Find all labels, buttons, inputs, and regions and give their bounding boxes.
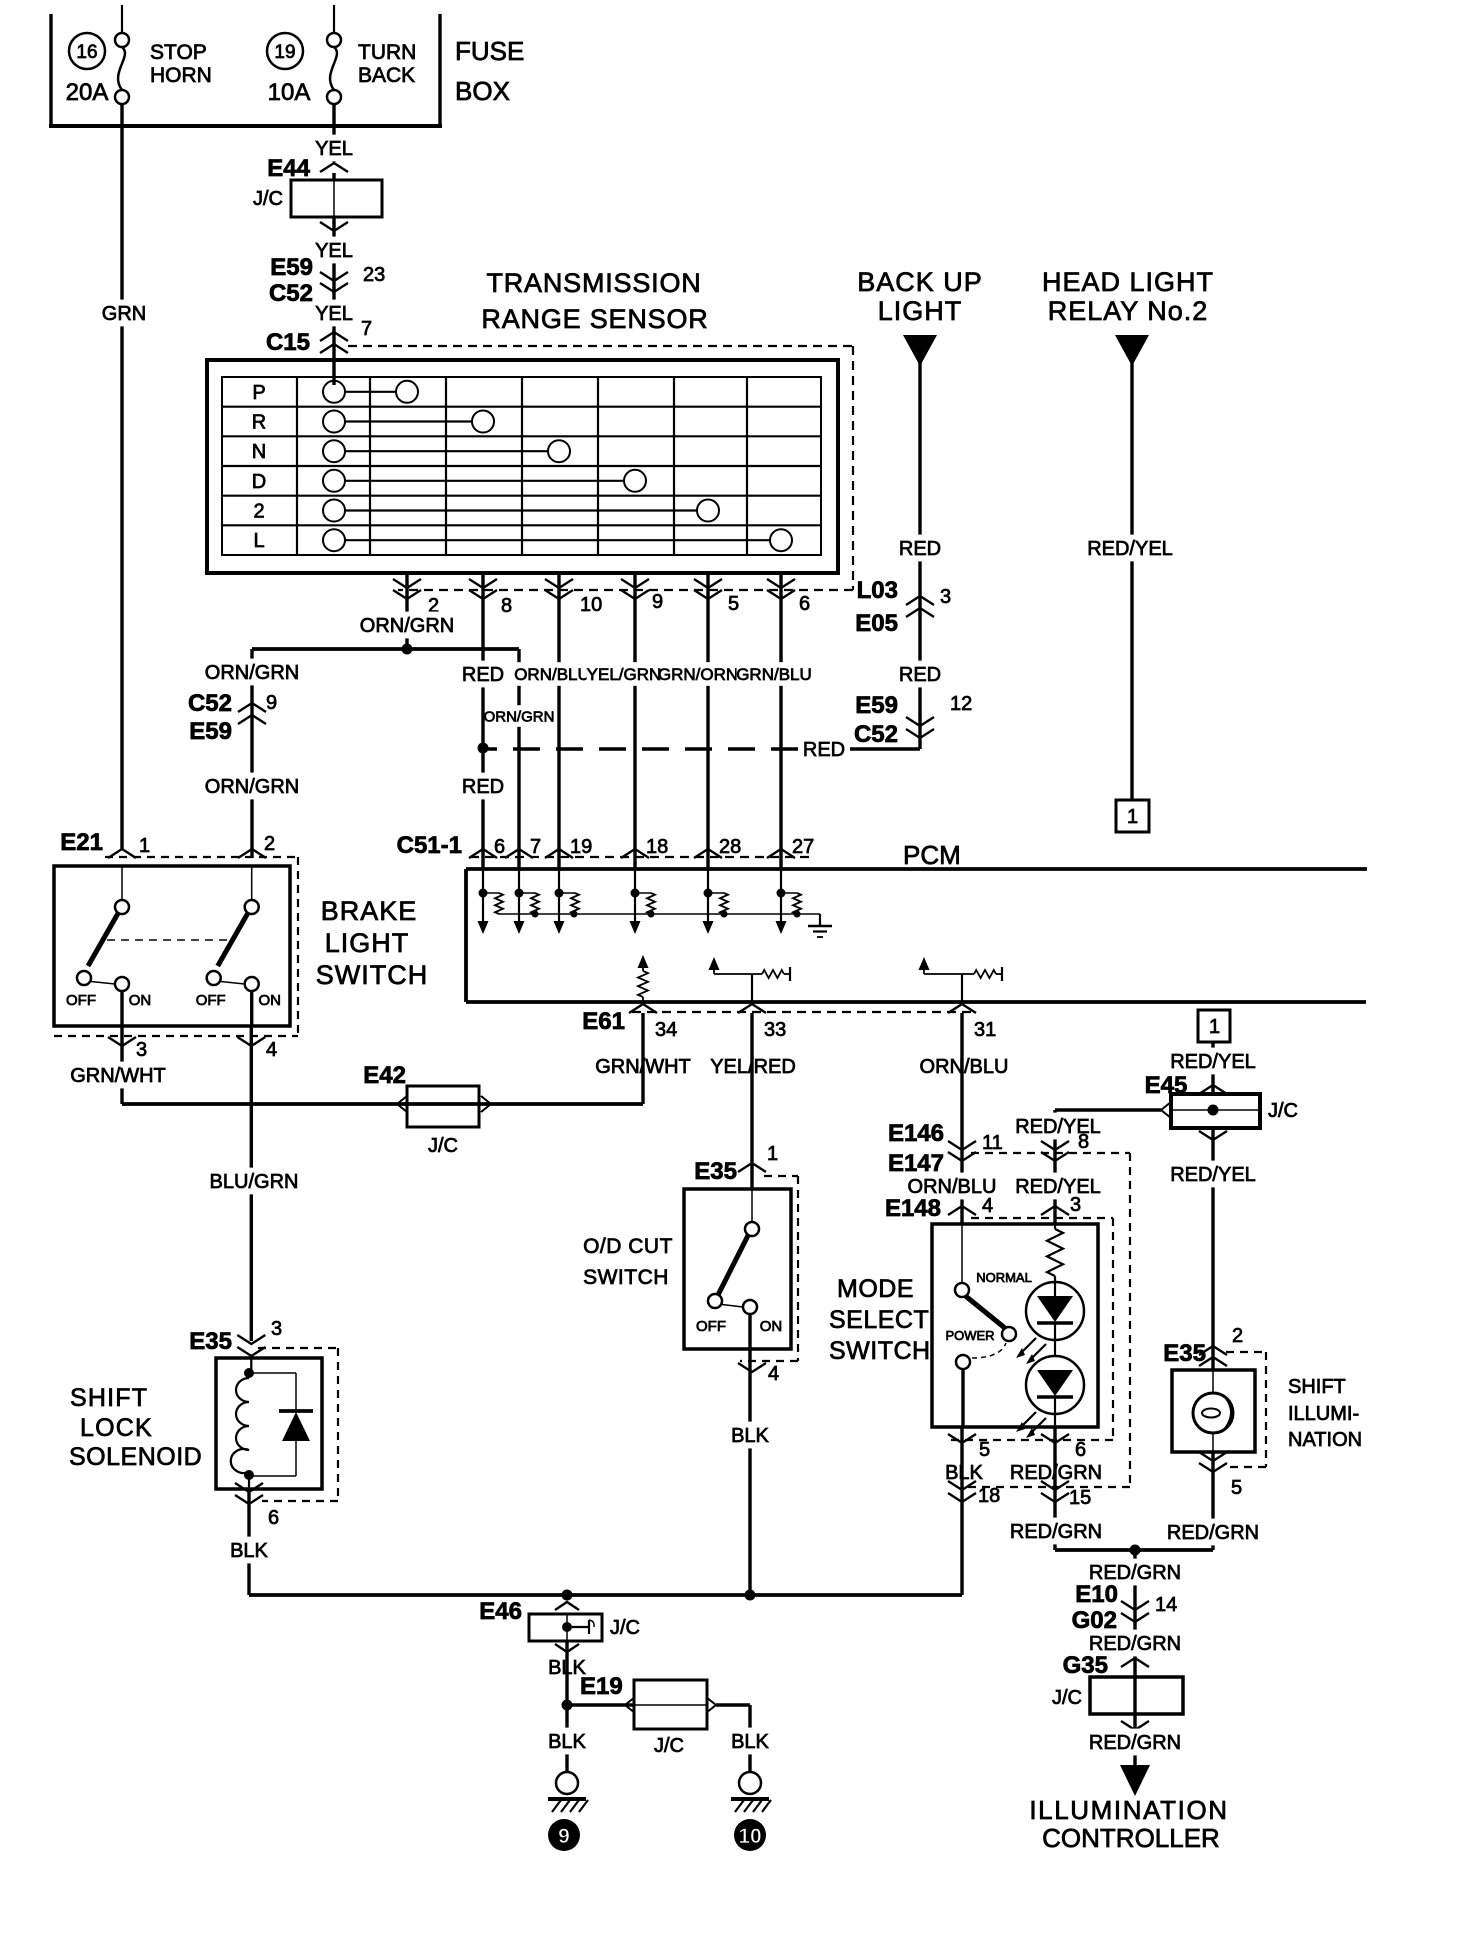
- svg-text:HORN: HORN: [150, 64, 212, 87]
- svg-text:RED: RED: [803, 739, 845, 761]
- svg-text:GRN/BLU: GRN/BLU: [736, 665, 812, 684]
- svg-text:C51-1: C51-1: [397, 832, 462, 859]
- svg-text:RED/GRN: RED/GRN: [1089, 1732, 1181, 1754]
- svg-text:4: 4: [266, 1039, 277, 1061]
- svg-text:E59: E59: [855, 692, 898, 719]
- svg-text:E21: E21: [60, 829, 103, 856]
- svg-text:E61: E61: [582, 1008, 625, 1035]
- svg-text:RED: RED: [462, 664, 504, 686]
- svg-text:BLK: BLK: [945, 1462, 983, 1484]
- svg-text:1: 1: [1209, 1016, 1220, 1038]
- svg-text:E59: E59: [270, 254, 313, 281]
- svg-text:GRN: GRN: [102, 303, 146, 325]
- svg-text:3: 3: [940, 586, 951, 608]
- svg-text:1: 1: [139, 835, 150, 857]
- svg-text:P: P: [252, 382, 265, 404]
- svg-text:RED/YEL: RED/YEL: [1015, 1176, 1101, 1198]
- svg-text:RED/GRN: RED/GRN: [1010, 1521, 1102, 1543]
- svg-text:E42: E42: [363, 1062, 406, 1089]
- svg-text:D: D: [252, 471, 266, 493]
- svg-text:10A: 10A: [268, 79, 311, 106]
- svg-text:4: 4: [768, 1363, 779, 1385]
- svg-text:YEL: YEL: [315, 240, 353, 262]
- svg-text:6: 6: [799, 593, 810, 615]
- svg-text:GRN/WHT: GRN/WHT: [70, 1065, 166, 1087]
- svg-text:ILLUMINATION: ILLUMINATION: [1029, 1795, 1228, 1825]
- svg-text:L03: L03: [857, 577, 898, 604]
- svg-text:E44: E44: [267, 155, 310, 182]
- svg-text:28: 28: [719, 836, 741, 858]
- svg-text:2: 2: [253, 501, 264, 523]
- svg-text:BLK: BLK: [731, 1425, 769, 1447]
- svg-text:ORN/GRN: ORN/GRN: [205, 776, 299, 798]
- svg-text:J/C: J/C: [253, 188, 283, 210]
- svg-text:33: 33: [764, 1019, 786, 1041]
- svg-text:OFF: OFF: [66, 992, 96, 1009]
- svg-text:1: 1: [767, 1143, 778, 1165]
- svg-text:YEL/GRN: YEL/GRN: [587, 665, 662, 684]
- svg-text:RED: RED: [899, 664, 941, 686]
- svg-text:CONTROLLER: CONTROLLER: [1042, 1823, 1220, 1853]
- svg-text:E35: E35: [694, 1158, 737, 1185]
- svg-text:6: 6: [268, 1507, 279, 1529]
- svg-text:RANGE SENSOR: RANGE SENSOR: [481, 304, 708, 334]
- svg-text:15: 15: [1069, 1487, 1091, 1509]
- svg-text:J/C: J/C: [610, 1617, 640, 1639]
- svg-text:OFF: OFF: [696, 1318, 726, 1335]
- svg-text:BACK UP: BACK UP: [857, 267, 983, 297]
- svg-text:C52: C52: [854, 721, 898, 748]
- svg-text:1: 1: [1127, 806, 1138, 828]
- svg-text:RED: RED: [462, 776, 504, 798]
- svg-text:12: 12: [950, 693, 972, 715]
- svg-text:E10: E10: [1075, 1581, 1118, 1608]
- svg-text:GRN/ORN: GRN/ORN: [658, 665, 738, 684]
- svg-text:BLK: BLK: [731, 1731, 769, 1753]
- svg-text:E46: E46: [479, 1598, 522, 1625]
- svg-text:SWITCH: SWITCH: [829, 1337, 931, 1365]
- svg-text:RED/YEL: RED/YEL: [1170, 1164, 1256, 1186]
- svg-text:RELAY No.2: RELAY No.2: [1048, 296, 1209, 326]
- svg-text:NORMAL: NORMAL: [976, 1270, 1032, 1285]
- svg-text:3: 3: [271, 1318, 282, 1340]
- svg-text:LOCK: LOCK: [80, 1414, 153, 1442]
- svg-text:34: 34: [655, 1019, 677, 1041]
- svg-text:20A: 20A: [66, 79, 109, 106]
- svg-text:ORN/BLU: ORN/BLU: [920, 1056, 1009, 1078]
- svg-text:J/C: J/C: [654, 1735, 684, 1757]
- svg-text:E59: E59: [189, 718, 232, 745]
- svg-text:2: 2: [1232, 1325, 1243, 1347]
- svg-text:NATION: NATION: [1288, 1429, 1362, 1451]
- svg-text:J/C: J/C: [428, 1135, 458, 1157]
- svg-text:HEAD LIGHT: HEAD LIGHT: [1042, 267, 1214, 297]
- svg-text:ORN/GRN: ORN/GRN: [484, 708, 555, 725]
- svg-text:8: 8: [1078, 1131, 1089, 1153]
- svg-text:SHIFT: SHIFT: [1288, 1376, 1346, 1398]
- svg-text:2: 2: [264, 833, 275, 855]
- svg-text:ILLUMI-: ILLUMI-: [1288, 1403, 1359, 1425]
- svg-text:31: 31: [974, 1019, 996, 1041]
- svg-text:C52: C52: [188, 690, 232, 717]
- svg-text:3: 3: [1070, 1194, 1081, 1216]
- svg-text:9: 9: [558, 1825, 570, 1848]
- svg-text:10: 10: [738, 1825, 761, 1848]
- svg-text:6: 6: [1075, 1439, 1086, 1461]
- svg-text:ON: ON: [760, 1318, 783, 1335]
- svg-text:SHIFT: SHIFT: [70, 1384, 148, 1412]
- svg-text:YEL: YEL: [315, 138, 353, 160]
- svg-text:23: 23: [363, 264, 385, 286]
- svg-text:BACK: BACK: [358, 64, 415, 87]
- svg-text:C52: C52: [269, 280, 313, 307]
- svg-text:7: 7: [361, 318, 372, 340]
- svg-text:SELECT: SELECT: [829, 1306, 929, 1334]
- svg-text:BLK: BLK: [548, 1731, 586, 1753]
- svg-text:11: 11: [982, 1132, 1003, 1154]
- svg-text:SOLENOID: SOLENOID: [69, 1443, 202, 1471]
- svg-text:3: 3: [136, 1039, 147, 1061]
- svg-text:18: 18: [978, 1485, 1000, 1507]
- svg-text:ON: ON: [129, 992, 152, 1009]
- svg-text:BLK: BLK: [230, 1540, 268, 1562]
- svg-text:SWITCH: SWITCH: [583, 1266, 669, 1289]
- svg-text:L: L: [253, 530, 264, 552]
- svg-text:9: 9: [652, 591, 663, 613]
- svg-text:RED/YEL: RED/YEL: [1170, 1051, 1256, 1073]
- svg-text:TURN: TURN: [358, 41, 416, 64]
- svg-text:5: 5: [979, 1439, 990, 1461]
- svg-text:J/C: J/C: [1268, 1100, 1298, 1122]
- svg-text:SWITCH: SWITCH: [316, 960, 428, 990]
- svg-text:18: 18: [646, 836, 668, 858]
- svg-text:MODE: MODE: [837, 1275, 914, 1303]
- svg-text:YEL: YEL: [315, 303, 353, 325]
- svg-text:9: 9: [266, 692, 277, 714]
- svg-text:G35: G35: [1063, 1652, 1108, 1679]
- svg-text:5: 5: [1231, 1477, 1242, 1499]
- svg-text:E146: E146: [888, 1120, 944, 1147]
- svg-text:E148: E148: [885, 1195, 941, 1222]
- svg-text:E19: E19: [580, 1673, 623, 1700]
- svg-text:RED/GRN: RED/GRN: [1167, 1522, 1259, 1544]
- svg-text:LIGHT: LIGHT: [878, 296, 963, 326]
- svg-text:STOP: STOP: [150, 41, 207, 64]
- svg-text:R: R: [252, 412, 266, 434]
- svg-text:E35: E35: [189, 1328, 232, 1355]
- svg-text:ORN/GRN: ORN/GRN: [205, 662, 299, 684]
- svg-text:8: 8: [501, 595, 512, 617]
- svg-text:7: 7: [530, 836, 541, 858]
- svg-text:PCM: PCM: [903, 840, 961, 870]
- svg-text:J/C: J/C: [1052, 1687, 1082, 1709]
- svg-text:E05: E05: [855, 610, 898, 637]
- svg-text:6: 6: [494, 836, 505, 858]
- svg-text:N: N: [252, 441, 266, 463]
- svg-text:ORN/GRN: ORN/GRN: [360, 615, 454, 637]
- svg-text:16: 16: [76, 42, 97, 63]
- svg-text:5: 5: [728, 593, 739, 615]
- svg-text:19: 19: [274, 42, 295, 63]
- svg-text:14: 14: [1155, 1594, 1177, 1616]
- svg-text:FUSE: FUSE: [455, 36, 524, 66]
- svg-text:10: 10: [580, 594, 602, 616]
- svg-text:C15: C15: [266, 329, 310, 356]
- svg-text:19: 19: [570, 836, 592, 858]
- svg-text:RED/YEL: RED/YEL: [1087, 538, 1173, 560]
- svg-text:4: 4: [982, 1195, 993, 1217]
- svg-text:27: 27: [792, 836, 814, 858]
- svg-text:BLU/GRN: BLU/GRN: [210, 1171, 299, 1193]
- svg-text:BOX: BOX: [455, 76, 510, 106]
- svg-text:ORN/BLU: ORN/BLU: [514, 665, 590, 684]
- svg-text:LIGHT: LIGHT: [325, 928, 410, 958]
- svg-text:O/D CUT: O/D CUT: [583, 1235, 673, 1258]
- svg-text:POWER: POWER: [945, 1328, 994, 1343]
- svg-text:OFF: OFF: [196, 992, 226, 1009]
- svg-text:BRAKE: BRAKE: [321, 896, 418, 926]
- svg-text:RED: RED: [899, 538, 941, 560]
- svg-text:TRANSMISSION: TRANSMISSION: [486, 268, 701, 298]
- svg-text:ON: ON: [258, 992, 281, 1009]
